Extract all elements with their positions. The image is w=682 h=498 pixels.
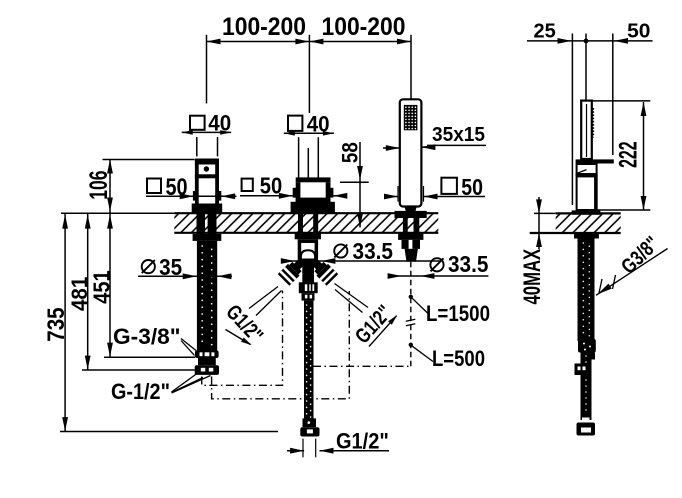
svg-text:451: 451 [88, 270, 114, 304]
svg-text:35x15: 35x15 [432, 124, 485, 146]
svg-text:481: 481 [67, 277, 92, 311]
svg-text:100-200: 100-200 [222, 13, 306, 41]
svg-text:50: 50 [260, 173, 282, 199]
svg-text:G1/2": G1/2" [336, 429, 389, 454]
svg-text:735: 735 [44, 307, 70, 341]
svg-text:G-1/2": G-1/2" [111, 379, 170, 404]
svg-text:58: 58 [338, 142, 363, 163]
svg-text:L=500: L=500 [432, 346, 485, 371]
svg-text:G-3/8": G-3/8" [113, 324, 181, 349]
svg-text:25: 25 [534, 20, 556, 42]
svg-text:100-200: 100-200 [322, 13, 406, 41]
svg-text:L=1500: L=1500 [426, 301, 490, 326]
svg-text:106: 106 [85, 171, 113, 200]
svg-text:222: 222 [615, 141, 642, 168]
svg-text:33.5: 33.5 [353, 238, 394, 264]
svg-text:50: 50 [627, 20, 650, 42]
svg-text:40MAX: 40MAX [519, 249, 546, 305]
svg-text:33.5: 33.5 [448, 251, 488, 277]
